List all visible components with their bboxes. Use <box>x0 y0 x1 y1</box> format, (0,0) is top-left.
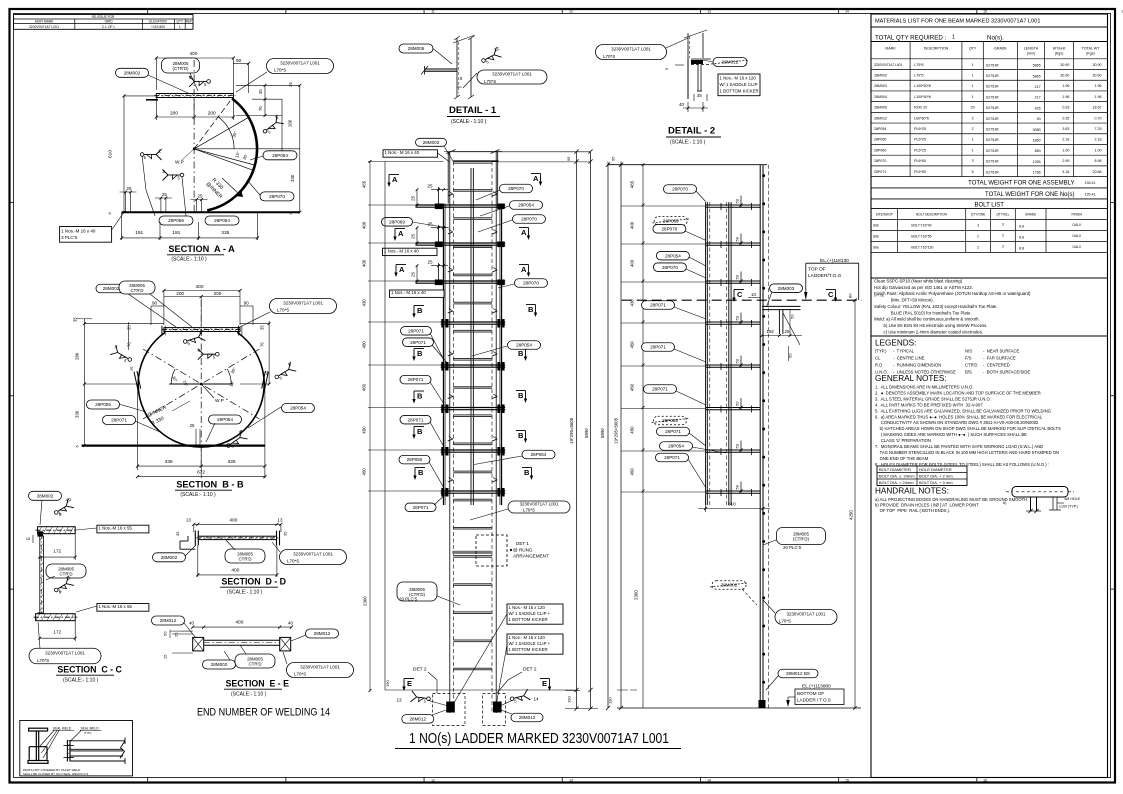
svg-text:3230V0071A7 L001: 3230V0071A7 L001 <box>611 47 651 52</box>
svg-text:1: 1 <box>972 95 974 99</box>
svg-text:L100*50*6: L100*50*6 <box>914 95 931 99</box>
svg-text:28P054: 28P054 <box>518 203 534 208</box>
svg-text:CTR'D: CTR'D <box>130 288 143 293</box>
svg-text:SITE/SHOP: SITE/SHOP <box>876 213 893 217</box>
svg-text:1: 1 <box>972 63 974 67</box>
svg-text:28P070: 28P070 <box>521 217 537 222</box>
svg-text:2: 2 <box>977 234 979 238</box>
svg-text:11: 11 <box>431 10 435 14</box>
svg-text:450: 450 <box>362 426 367 434</box>
svg-text:28P054: 28P054 <box>290 406 306 411</box>
svg-text:Site: Site <box>873 223 879 227</box>
svg-text:20: 20 <box>971 106 975 110</box>
svg-text:BOLT DIAMETER: BOLT DIAMETER <box>879 467 911 472</box>
svg-text:28M002: 28M002 <box>124 70 141 75</box>
svg-text:(SCALE:- 1:10 ): (SCALE:- 1:10 ) <box>63 678 99 684</box>
svg-text:400: 400 <box>196 284 204 290</box>
svg-text:3 PLC'S: 3 PLC'S <box>61 235 77 240</box>
svg-text:28M005: 28M005 <box>874 106 887 110</box>
svg-text:450: 450 <box>630 468 635 476</box>
svg-text:3230V0071A7 L001: 3230V0071A7 L001 <box>492 72 532 77</box>
svg-text:25: 25 <box>162 192 167 197</box>
svg-text:MATERIALS LIST FOR ONE BEAM MA: MATERIALS LIST FOR ONE BEAM MARKED 3230V… <box>875 19 1041 25</box>
svg-text:28M002: 28M002 <box>874 73 887 77</box>
svg-text:90: 90 <box>244 301 250 306</box>
svg-text:28M002: 28M002 <box>161 555 178 560</box>
svg-text:28P054: 28P054 <box>665 253 681 258</box>
svg-text:CTR'D: CTR'D <box>965 363 977 368</box>
svg-text:BOLT.T16*120: BOLT.T16*120 <box>911 245 933 249</box>
svg-text:A: A <box>521 265 527 274</box>
svg-text:RE-ISSUE FOR: RE-ISSUE FOR <box>92 15 115 19</box>
svg-text:135.41: 135.41 <box>1085 193 1096 197</box>
svg-text:E: E <box>407 679 412 688</box>
svg-text:EL.(+)113800: EL.(+)113800 <box>802 684 831 690</box>
svg-text:25: 25 <box>411 195 416 201</box>
svg-text:28P054: 28P054 <box>874 127 886 131</box>
svg-text:1.96: 1.96 <box>1095 95 1102 99</box>
svg-text:3230V0071A7 L001: 3230V0071A7 L001 <box>45 651 85 656</box>
svg-text:50: 50 <box>735 198 740 203</box>
svg-text:400: 400 <box>235 620 243 626</box>
svg-text:L70*S: L70*S <box>484 79 496 84</box>
svg-text:3: 3 <box>972 159 974 163</box>
svg-text:28P054: 28P054 <box>668 444 684 449</box>
svg-text:5865: 5865 <box>1033 64 1041 68</box>
svg-text:50: 50 <box>735 484 740 489</box>
svg-text:450: 450 <box>630 426 635 434</box>
svg-text:3230V0071A7 L001: 3230V0071A7 L001 <box>29 25 59 29</box>
svg-text:50: 50 <box>735 443 740 448</box>
svg-text:HOLE DIAMETER: HOLE DIAMETER <box>919 467 952 472</box>
svg-text:450: 450 <box>630 341 635 349</box>
svg-text:B: B <box>518 431 524 440</box>
svg-text:25: 25 <box>785 329 790 334</box>
svg-text:(SCALE:- 1:10 ): (SCALE:- 1:10 ) <box>451 119 487 125</box>
svg-text:L70*S: L70*S <box>274 68 286 73</box>
svg-text:3230V0071A7 L001: 3230V0071A7 L001 <box>520 502 559 507</box>
svg-text:BOLT.T16*40: BOLT.T16*40 <box>911 223 931 227</box>
svg-text:8.96: 8.96 <box>1095 159 1102 163</box>
svg-text:BOLT LIST: BOLT LIST <box>975 203 1005 209</box>
svg-text:1: 1 <box>972 84 974 88</box>
svg-text:SECTION D - D: SECTION D - D <box>222 577 287 587</box>
svg-text:13: 13 <box>278 518 283 523</box>
svg-text:B/S: B/S <box>965 370 972 375</box>
svg-text:35: 35 <box>73 317 78 322</box>
svg-text:S275JR: S275JR <box>986 160 999 164</box>
svg-text:B: B <box>418 468 424 477</box>
svg-text:28M002: 28M002 <box>423 140 440 145</box>
svg-text:S275JR: S275JR <box>986 106 999 110</box>
svg-text:END NUMBER OF WELDING 14: END NUMBER OF WELDING 14 <box>197 707 330 719</box>
svg-text:35: 35 <box>288 82 293 87</box>
svg-text:172: 172 <box>53 630 61 635</box>
svg-text:PL6*25: PL6*25 <box>914 127 926 131</box>
svg-text:R.D: R.D <box>875 363 882 368</box>
svg-text:28P070: 28P070 <box>508 186 524 191</box>
svg-text:190: 190 <box>567 696 572 703</box>
svg-text:28M003: 28M003 <box>778 286 795 291</box>
svg-text:(SCALE:- 1:10 ): (SCALE:- 1:10 ) <box>171 257 207 263</box>
svg-text:8.8: 8.8 <box>1019 246 1024 250</box>
svg-text:8.8: 8.8 <box>1019 235 1024 239</box>
svg-text:GRADE: GRADE <box>994 47 1007 51</box>
svg-text:2: 2 <box>1002 244 1004 248</box>
svg-text:Site: Site <box>873 245 879 249</box>
svg-text:CTR'D: CTR'D <box>248 661 261 666</box>
svg-text:28P071: 28P071 <box>664 455 680 460</box>
svg-text:N/S: N/S <box>965 349 972 354</box>
svg-text:1 Nos.-M 16 x 55: 1 Nos.-M 16 x 55 <box>98 604 132 609</box>
svg-text:S275JR: S275JR <box>986 149 999 153</box>
svg-text:(SCALE:- 1:10 ): (SCALE:- 1:10 ) <box>231 692 267 698</box>
svg-text:GALV: GALV <box>1072 234 1082 238</box>
svg-text:GRID: GRID <box>105 20 114 24</box>
svg-text:25: 25 <box>428 222 434 227</box>
svg-text:28M012: 28M012 <box>874 116 887 120</box>
svg-text:28P071: 28P071 <box>408 417 424 422</box>
svg-text:28P071: 28P071 <box>665 429 681 434</box>
svg-text:450: 450 <box>630 383 635 391</box>
svg-text:610: 610 <box>728 502 736 507</box>
svg-text:1 Nos.-M 16 x 55: 1 Nos.-M 16 x 55 <box>98 526 132 531</box>
svg-text:28P055: 28P055 <box>874 138 886 142</box>
svg-text:6: 6 <box>108 212 112 214</box>
svg-text:Clean SSPC-SP10 (Near white bl: Clean SSPC-SP10 (Near white blast cleani… <box>874 279 963 284</box>
svg-text:4. ALL PART MARKS TO BE PREFI: 4. ALL PART MARKS TO BE PREFIXED WITH 32… <box>875 402 983 407</box>
svg-text:28P071: 28P071 <box>111 418 127 423</box>
svg-text:28M002: 28M002 <box>37 493 54 498</box>
svg-text:DFT 70μ: DFT 70μ <box>874 294 885 298</box>
svg-text:76: 76 <box>260 342 265 347</box>
svg-text:3. ALL STEEL MATERIAL GRADE S: 3. ALL STEEL MATERIAL GRADE SHALL BE S27… <box>875 396 991 401</box>
svg-text:400: 400 <box>630 221 635 229</box>
svg-text:40: 40 <box>288 621 293 626</box>
svg-text:A: A <box>399 265 405 274</box>
svg-text:DET 1: DET 1 <box>516 541 529 546</box>
svg-text:2.18: 2.18 <box>1062 138 1069 142</box>
svg-text:25: 25 <box>190 423 195 428</box>
svg-text:400: 400 <box>229 518 237 524</box>
svg-text:A: A <box>392 175 398 184</box>
svg-text:S275JR: S275JR <box>986 74 999 78</box>
svg-text:400: 400 <box>362 221 367 229</box>
svg-text:28M005: 28M005 <box>408 46 425 51</box>
svg-text:S275JR: S275JR <box>986 117 999 121</box>
svg-text:450: 450 <box>362 341 367 349</box>
svg-text:DET 2: DET 2 <box>413 667 427 673</box>
svg-text:REF: REF <box>186 20 192 24</box>
svg-text:(CTR'D): (CTR'D) <box>173 66 189 71</box>
svg-text:28P070: 28P070 <box>662 265 678 270</box>
svg-text:135.41: 135.41 <box>1085 181 1096 185</box>
svg-text:3.63: 3.63 <box>1062 127 1069 131</box>
svg-text:L70*S: L70*S <box>37 658 49 663</box>
svg-text:190: 190 <box>608 697 613 704</box>
svg-text:28M012: 28M012 <box>409 717 426 722</box>
svg-text:4.18: 4.18 <box>1062 170 1069 174</box>
svg-text:13: 13 <box>186 518 191 523</box>
svg-text:6: 6 <box>289 212 293 214</box>
svg-text:50: 50 <box>735 358 740 363</box>
svg-text:Finish Paint: Aliphatic Acrili: Finish Paint: Aliphatic Acrilic Polyuret… <box>874 291 1031 296</box>
svg-text:12: 12 <box>431 778 435 782</box>
svg-text:28P070: 28P070 <box>672 187 688 192</box>
svg-text:L70*S: L70*S <box>294 672 306 677</box>
svg-text:191: 191 <box>135 230 143 236</box>
svg-text:16: 16 <box>983 778 987 782</box>
svg-text:76: 76 <box>258 106 263 111</box>
svg-text:90: 90 <box>1037 117 1041 121</box>
svg-text:L70*S: L70*S <box>277 308 289 313</box>
svg-text:L100*50*6: L100*50*6 <box>914 84 931 88</box>
svg-text:1.96: 1.96 <box>1095 84 1102 88</box>
svg-text:25: 25 <box>411 271 416 277</box>
svg-text:28P070: 28P070 <box>661 226 677 231</box>
svg-text:15: 15 <box>983 10 987 14</box>
svg-text:50: 50 <box>735 274 740 279</box>
svg-text:(TYP.): (TYP.) <box>875 349 887 354</box>
svg-text:W.P: W.P <box>175 160 184 166</box>
svg-text:WT/unit: WT/unit <box>1053 47 1065 51</box>
svg-text:1 BOTTOM KICKER: 1 BOTTOM KICKER <box>509 647 548 652</box>
svg-text:450: 450 <box>362 468 367 476</box>
svg-text:400: 400 <box>630 259 635 267</box>
svg-text:B: B <box>518 391 524 400</box>
svg-text:90: 90 <box>236 58 242 64</box>
svg-text:LADDER / T.O.S: LADDER / T.O.S <box>797 698 831 703</box>
svg-text:30.90: 30.90 <box>1093 73 1102 77</box>
svg-text:25: 25 <box>411 233 416 239</box>
svg-text:L70*S: L70*S <box>287 559 299 564</box>
svg-text:5890: 5890 <box>584 428 589 438</box>
svg-text:400: 400 <box>190 51 198 57</box>
svg-text:1.96: 1.96 <box>1062 95 1069 99</box>
svg-text:25: 25 <box>174 632 179 637</box>
svg-text:B: B <box>417 306 423 315</box>
svg-text:3230V0071A7 L001: 3230V0071A7 L001 <box>300 665 340 670</box>
svg-text:5. ALL EARTHING LUGS ARE GALV: 5. ALL EARTHING LUGS ARE GALVANIZED, SHA… <box>875 408 1051 413</box>
svg-text:8.8: 8.8 <box>1019 224 1024 228</box>
svg-text:4: 4 <box>189 75 192 81</box>
svg-text:28M003: 28M003 <box>874 84 887 88</box>
svg-text:25: 25 <box>127 186 132 191</box>
svg-text:DESCRIPTION: DESCRIPTION <box>924 47 949 51</box>
svg-text:BOLT DIA. ≤ 24mm: BOLT DIA. ≤ 24mm <box>879 474 915 479</box>
svg-text:28P071: 28P071 <box>650 303 666 308</box>
svg-text:430: 430 <box>362 299 367 307</box>
svg-text:- NEAR SURFACE: - NEAR SURFACE <box>983 349 1020 354</box>
svg-text:GENERAL NOTES:: GENERAL NOTES: <box>875 374 947 383</box>
svg-text:TOTAL WT: TOTAL WT <box>1082 47 1101 51</box>
svg-text:50: 50 <box>735 401 740 406</box>
svg-text:GALV: GALV <box>1072 245 1082 249</box>
svg-text:19*295=5605: 19*295=5605 <box>614 417 619 444</box>
svg-text:BOLT DESCRIPTION: BOLT DESCRIPTION <box>916 213 947 217</box>
svg-text:3230V0071A7 L001: 3230V0071A7 L001 <box>280 61 320 66</box>
svg-text:400: 400 <box>362 259 367 267</box>
svg-text:5890: 5890 <box>600 428 605 438</box>
svg-text:W.P: W.P <box>215 398 224 404</box>
svg-text:1: 1 <box>179 25 181 29</box>
svg-text:3: 3 <box>1002 222 1004 226</box>
svg-text:GALV: GALV <box>1072 223 1082 227</box>
svg-text:28M012: 28M012 <box>160 618 177 623</box>
svg-text:S275JR: S275JR <box>986 95 999 99</box>
svg-text:Site: Site <box>873 234 879 238</box>
svg-text:ELEVATION: ELEVATION <box>149 20 167 24</box>
svg-text:b) Use E6 B1N 84 H5 electrode: b) Use E6 B1N 84 H5 electrode using SMAW… <box>874 323 988 328</box>
svg-text:95: 95 <box>566 156 571 161</box>
svg-text:PL6*25: PL6*25 <box>914 148 926 152</box>
svg-text:200: 200 <box>176 291 184 296</box>
svg-text:c) Use minimum 2.4mm diameter: c) Use minimum 2.4mm diameter coated ele… <box>874 329 983 334</box>
svg-text:E: E <box>542 679 547 688</box>
svg-text:35: 35 <box>260 325 265 330</box>
svg-text:28P071: 28P071 <box>874 170 886 174</box>
svg-text:PL6*50: PL6*50 <box>914 159 926 163</box>
svg-text:190: 190 <box>385 680 390 687</box>
svg-text:1 NO(s) LADDER MARKED 3230V007: 1 NO(s) LADDER MARKED 3230V0071A7 L001 <box>409 731 669 747</box>
svg-text:1: 1 <box>952 35 955 41</box>
svg-text:28P054: 28P054 <box>217 417 233 422</box>
svg-text:W/ 1 SADDLE CLIP: W/ 1 SADDLE CLIP <box>720 82 758 87</box>
svg-text:6: 6 <box>76 445 80 447</box>
svg-text:6. a) AREA MARKED THUS ●–● H: 6. a) AREA MARKED THUS ●–● HOLES 100% SH… <box>875 414 1043 419</box>
svg-text:28M002: 28M002 <box>103 286 120 291</box>
svg-text:L70*5: L70*5 <box>914 63 923 67</box>
svg-text:172: 172 <box>53 549 61 554</box>
svg-text:19*295=5605: 19*295=5605 <box>569 417 574 444</box>
svg-text:LADDER/T.O.G: LADDER/T.O.G <box>808 273 842 279</box>
svg-text:(SCALE:- 1:10 ): (SCALE:- 1:10 ) <box>227 590 263 596</box>
svg-text:C: C <box>828 290 834 299</box>
svg-text:CTR'D: CTR'D <box>59 571 72 576</box>
svg-text:LENGTH: LENGTH <box>1024 47 1039 51</box>
svg-text:7.25: 7.25 <box>1095 127 1102 131</box>
svg-text:28P054: 28P054 <box>531 452 547 457</box>
svg-text:BOLT DIA. + 3 mm: BOLT DIA. + 3 mm <box>919 480 953 485</box>
svg-text:2: 2 <box>977 245 979 249</box>
svg-text:SHALL BE CLOSED BY 3mm SEAL WE: SHALL BE CLOSED BY 3mm SEAL WELDS N.S <box>23 772 88 776</box>
svg-text:No(s).: No(s). <box>987 35 1004 42</box>
svg-text:336: 336 <box>228 459 236 465</box>
svg-text:DETAIL - 2: DETAIL - 2 <box>668 126 715 137</box>
svg-text:15: 15 <box>845 778 849 782</box>
svg-text:14: 14 <box>845 10 849 14</box>
svg-text:28P071: 28P071 <box>408 328 424 333</box>
svg-text:S275JR: S275JR <box>986 170 999 174</box>
svg-text:50: 50 <box>735 236 740 241</box>
svg-text:35: 35 <box>697 93 702 98</box>
svg-text:PL6*25: PL6*25 <box>914 138 926 142</box>
svg-text:25: 25 <box>428 184 434 189</box>
svg-text:30.90: 30.90 <box>1060 73 1069 77</box>
svg-text:28P071: 28P071 <box>650 345 666 350</box>
svg-text:335: 335 <box>221 230 229 236</box>
svg-text:28P055: 28P055 <box>407 457 423 462</box>
svg-text:1. ALL DIMENSIONS ARE IN MILL: 1. ALL DIMENSIONS ARE IN MILLIMETERS U.N… <box>875 385 974 390</box>
svg-text:5: 5 <box>972 170 974 174</box>
svg-text:(Kgs): (Kgs) <box>1055 52 1064 56</box>
svg-text:191: 191 <box>172 230 180 236</box>
svg-text:280: 280 <box>75 352 80 360</box>
svg-text:30.90: 30.90 <box>1060 63 1069 67</box>
svg-text:1.00: 1.00 <box>1095 148 1102 152</box>
svg-text:QTY: QTY <box>969 47 977 51</box>
svg-text:SECTION A - A: SECTION A - A <box>168 244 235 254</box>
svg-text:28P070: 28P070 <box>874 159 886 163</box>
svg-text:GRADE: GRADE <box>1025 213 1036 217</box>
svg-text:MARK: MARK <box>885 47 896 51</box>
svg-text:ROD 20: ROD 20 <box>914 106 927 110</box>
svg-text:2: 2 <box>972 127 974 131</box>
svg-text:28M004: 28M004 <box>874 95 887 99</box>
svg-text:- TYPICAL: - TYPICAL <box>893 349 915 354</box>
svg-text:S275JR: S275JR <box>986 128 999 132</box>
svg-text:450: 450 <box>362 383 367 391</box>
svg-text:50: 50 <box>163 631 168 636</box>
svg-text:SECTION C - C: SECTION C - C <box>57 665 122 675</box>
svg-text:Weld: a) All weld shall be con: Weld: a) All weld shall be continuous,un… <box>874 317 980 322</box>
svg-text:b) PROVIDE DRAIN HOLES ( 8Ø ): b) PROVIDE DRAIN HOLES ( 8Ø ) AT LOWER P… <box>875 503 979 508</box>
svg-text:1 Nos.- M 16 x 40: 1 Nos.- M 16 x 40 <box>384 248 419 253</box>
svg-text:28P054: 28P054 <box>272 153 288 158</box>
svg-text:2: 2 <box>162 169 165 175</box>
svg-text:28P055: 28P055 <box>95 402 111 407</box>
svg-text:CONDUCTIVITY AS SHOWN ON STAND: CONDUCTIVITY AS SHOWN ON STANDARD DWG # … <box>875 420 1039 425</box>
svg-text:A: A <box>533 174 539 183</box>
svg-text:3230V0071A7 L001: 3230V0071A7 L001 <box>293 552 333 557</box>
svg-text:QTY/ONE: QTY/ONE <box>971 213 985 217</box>
svg-text:A: A <box>521 228 527 237</box>
svg-text:(Kgs): (Kgs) <box>1086 52 1095 56</box>
svg-text:0.93: 0.93 <box>1062 106 1069 110</box>
svg-text:BLUE (RAL 5010) for Handrail's: BLUE (RAL 5010) for Handrail's Toe Plate… <box>874 310 972 315</box>
svg-text:20.88: 20.88 <box>1093 170 1102 174</box>
svg-text:- FAR SURFACE: - FAR SURFACE <box>983 356 1016 361</box>
svg-text:(mm): (mm) <box>1027 52 1035 56</box>
svg-text:PL6*50: PL6*50 <box>914 170 926 174</box>
svg-text:DET 2: DET 2 <box>523 667 537 673</box>
svg-text:1265: 1265 <box>1033 160 1041 164</box>
svg-text:3230V0071A7 L001: 3230V0071A7 L001 <box>283 301 323 306</box>
svg-text:CL: CL <box>875 356 881 361</box>
svg-text:1850: 1850 <box>1033 139 1041 143</box>
svg-text:1.96: 1.96 <box>1062 84 1069 88</box>
svg-text:76: 76 <box>127 342 132 347</box>
svg-text:W/ 1 SADDLE CLIP +: W/ 1 SADDLE CLIP + <box>509 641 551 646</box>
svg-text:S275JR: S275JR <box>986 138 999 142</box>
svg-text:28M012: 28M012 <box>314 631 331 636</box>
svg-text:1 BOTTOM KICKER: 1 BOTTOM KICKER <box>720 88 759 93</box>
svg-text:1 Nos.- M 16 x 40: 1 Nos.- M 16 x 40 <box>385 150 420 155</box>
svg-text:6: 6 <box>59 591 61 595</box>
svg-text:2.18: 2.18 <box>1095 138 1102 142</box>
svg-text:W/ 1 SADDLE CLIP +: W/ 1 SADDLE CLIP + <box>509 611 551 616</box>
svg-text:(SCALE:- 1:10 ): (SCALE:- 1:10 ) <box>670 140 706 146</box>
svg-text:672: 672 <box>197 470 205 476</box>
svg-text:L70*S: L70*S <box>779 619 791 624</box>
svg-text:ASSY MARK: ASSY MARK <box>35 20 54 24</box>
svg-text:14: 14 <box>707 778 711 782</box>
svg-text:BOLT.T16*55: BOLT.T16*55 <box>911 234 931 238</box>
svg-text:SECTION B - B: SECTION B - B <box>176 480 244 490</box>
svg-text:1 BOTTOM KICKER: 1 BOTTOM KICKER <box>509 617 548 622</box>
svg-text:B: B <box>417 427 423 436</box>
svg-text:- RUNNING DIMENSION: - RUNNING DIMENSION <box>893 363 941 368</box>
